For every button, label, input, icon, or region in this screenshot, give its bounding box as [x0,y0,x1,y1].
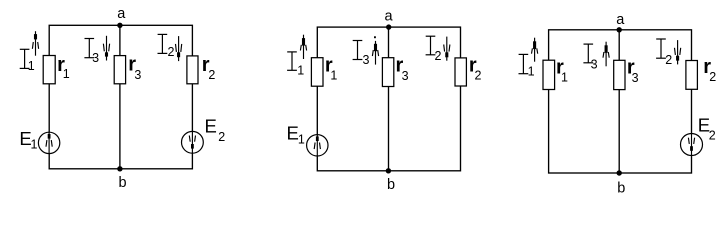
svg-text:3: 3 [134,68,141,82]
svg-text:1: 1 [297,63,304,77]
svg-text:2: 2 [475,68,482,82]
svg-text:3: 3 [92,51,99,65]
svg-text:1: 1 [31,138,38,152]
svg-text:a: a [616,12,625,28]
svg-text:3: 3 [363,53,370,67]
svg-text:3: 3 [402,69,409,83]
svg-text:1: 1 [63,67,70,81]
svg-text:E: E [205,116,217,137]
svg-text:2: 2 [665,53,672,67]
svg-text:a: a [385,9,394,25]
svg-text:2: 2 [709,70,716,84]
svg-text:a: a [117,6,126,22]
svg-text:2: 2 [208,68,215,82]
svg-text:1: 1 [330,68,337,82]
svg-text:b: b [617,180,625,196]
svg-text:2: 2 [709,129,716,143]
svg-text:1: 1 [561,70,568,84]
svg-text:2: 2 [218,130,225,144]
svg-text:3: 3 [632,71,639,85]
svg-text:1: 1 [528,64,535,78]
svg-text:b: b [119,175,127,191]
svg-text:1: 1 [28,59,35,73]
svg-text:3: 3 [591,57,598,71]
svg-text:1: 1 [298,133,305,147]
svg-text:b: b [387,177,395,193]
svg-text:2: 2 [168,45,175,59]
svg-text:2: 2 [435,49,442,63]
